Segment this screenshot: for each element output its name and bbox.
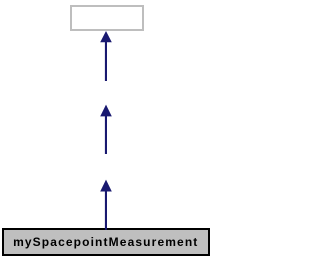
node: mySpacepointMeasurement (current class, grey fill, black border) xyxy=(2,228,210,256)
arrowhead of edge 1 (to base box) xyxy=(100,31,112,42)
wire: shaft of edge 1 xyxy=(105,42,107,81)
arrowhead of edge 3 (from derived class) xyxy=(100,180,112,192)
wire: shaft of edge 2 xyxy=(105,116,107,154)
wire: shaft of edge 3 xyxy=(105,191,107,230)
arrowhead of edge 2 (middle) xyxy=(100,105,112,117)
inheritance edges (midnightblue arrows) xyxy=(0,0,213,261)
node: base-class box (empty, grey border) xyxy=(70,5,144,31)
label: mySpacepointMeasurement xyxy=(4,230,208,256)
